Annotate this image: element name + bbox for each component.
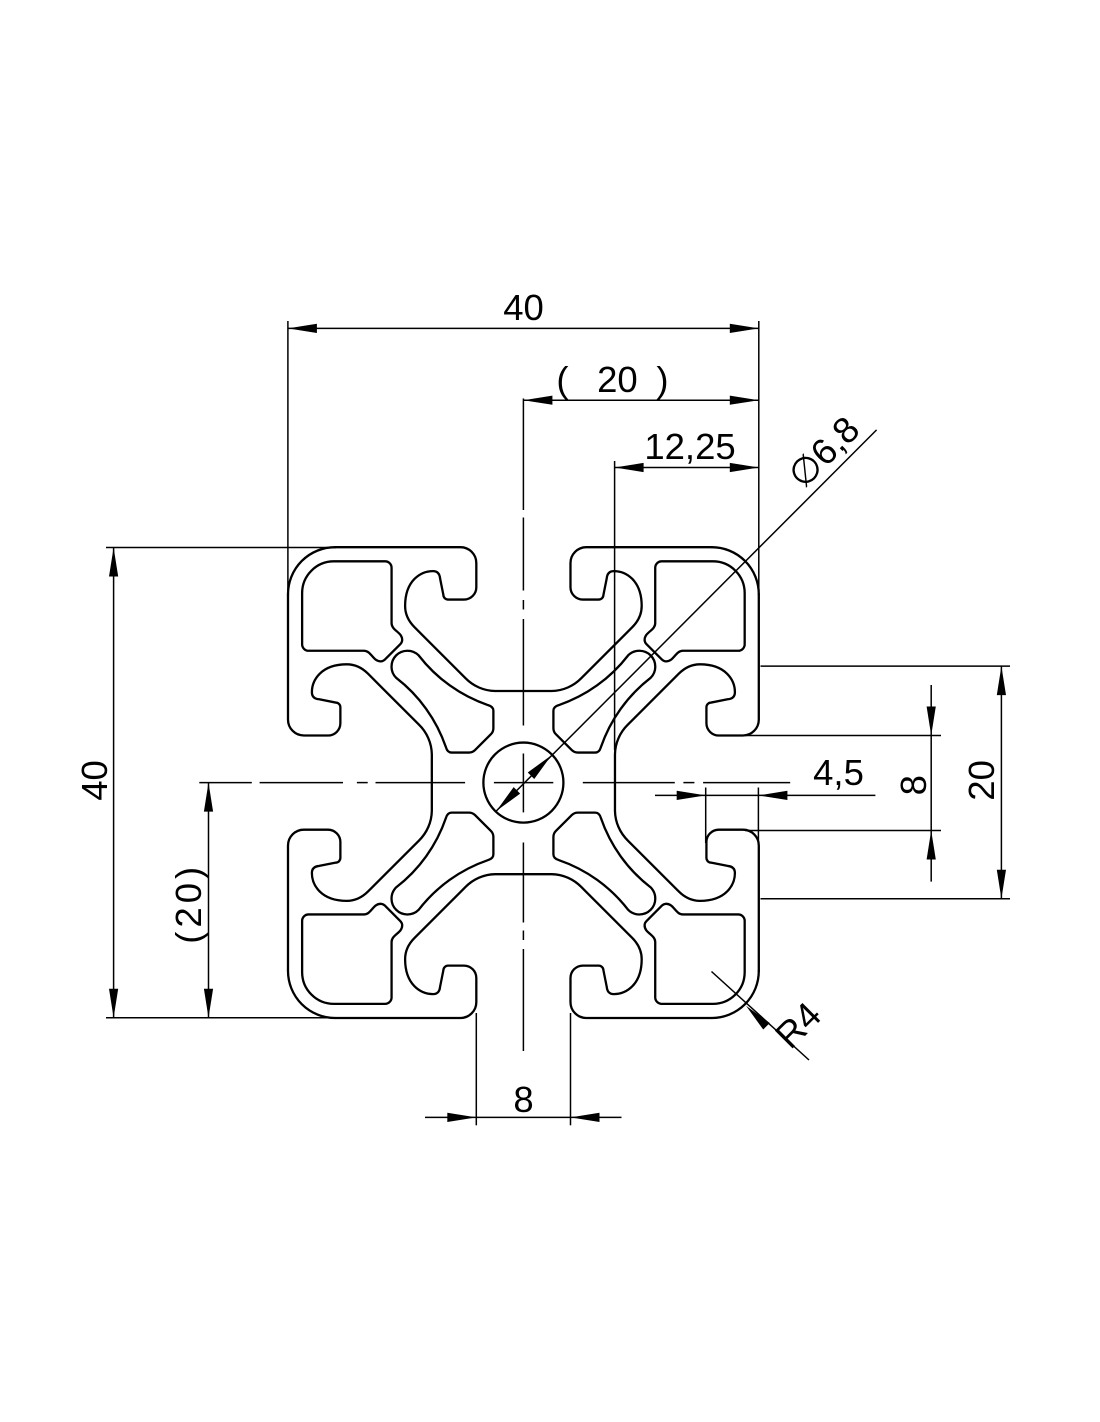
outer corner R4 <box>288 547 335 594</box>
T-slot wall <box>288 783 432 971</box>
svg-text:40: 40 <box>503 287 544 328</box>
arrows 4,5 <box>677 791 706 800</box>
vertical centerline <box>522 399 524 511</box>
arrows (20) left <box>204 783 213 812</box>
extension lines right 20 <box>761 665 1011 667</box>
extension line 12.25 <box>614 461 616 750</box>
diagonal cavity <box>553 813 655 915</box>
extension line left profile edge <box>287 321 289 590</box>
extension lines right 8 <box>745 735 941 737</box>
corner cavity <box>302 561 402 661</box>
horizontal centerline <box>199 782 252 784</box>
T-slot wall mirrored <box>335 874 523 1018</box>
T-slot wall <box>523 874 711 1018</box>
diagonal cavity <box>392 813 494 915</box>
dim line 8 right <box>930 685 932 882</box>
svg-text:8: 8 <box>893 775 934 795</box>
dim line 40 left <box>113 548 115 1018</box>
svg-text:4,5: 4,5 <box>813 752 864 793</box>
diagonal cavity <box>392 651 494 753</box>
dim line (20) top <box>523 399 758 401</box>
dim line 4,5 <box>655 794 875 796</box>
arrows 40 top <box>288 324 317 333</box>
svg-text:(: ( <box>556 359 568 400</box>
outer corner R4 <box>712 547 759 594</box>
extension line right profile edge <box>758 321 760 592</box>
T-slot wall mirrored <box>288 594 432 782</box>
svg-text:(20): (20) <box>168 863 209 944</box>
dim line 20 right <box>1000 666 1002 899</box>
T-slot wall mirrored <box>615 783 759 971</box>
arrows 12,25 <box>615 463 644 472</box>
extension line bottom face left <box>106 1017 336 1019</box>
diagonal cavity <box>553 651 655 753</box>
corner cavity <box>645 904 745 1004</box>
leader R4 <box>712 972 810 1061</box>
svg-text:): ) <box>656 359 668 400</box>
leader diameter 6,8 <box>496 430 876 811</box>
outer corner R4 <box>712 971 759 1018</box>
arrow R4 <box>743 1003 770 1030</box>
dim line 12,25 <box>615 467 759 469</box>
extension lines 4.5 <box>705 788 707 844</box>
outer corner R4 <box>288 971 335 1018</box>
arrows (20) top <box>523 396 552 405</box>
T-slot wall mirrored <box>523 547 711 691</box>
corner cavity <box>302 904 402 1004</box>
center bore 6.8 <box>483 743 563 823</box>
svg-text:8: 8 <box>513 1079 533 1120</box>
arrows diameter 6,8 <box>528 752 555 779</box>
extension lines bottom 8 <box>475 1013 477 1125</box>
arrows 8 bottom <box>447 1113 476 1122</box>
svg-text:40: 40 <box>74 760 115 801</box>
corner cavity <box>645 561 745 661</box>
svg-text:12,25: 12,25 <box>644 426 735 467</box>
arrows 20 right <box>997 666 1006 695</box>
svg-text:20: 20 <box>961 760 1002 801</box>
extension line top face left <box>106 547 336 549</box>
dim line (20) left <box>208 783 210 1018</box>
dim line 40 top <box>288 327 759 329</box>
svg-text:20: 20 <box>597 359 638 400</box>
dim line 8 bottom <box>425 1116 622 1118</box>
arrows 8 right <box>927 707 936 736</box>
T-slot wall <box>335 547 523 691</box>
arrows 40 left <box>109 548 118 577</box>
T-slot wall <box>615 594 759 782</box>
